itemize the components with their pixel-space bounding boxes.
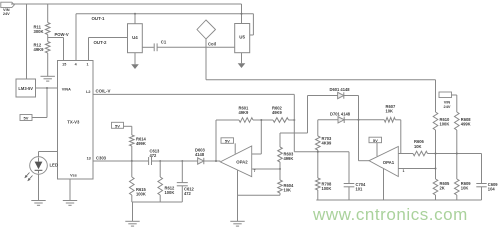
svg-text:VINA: VINA (62, 87, 71, 91)
IC U5 (235, 24, 250, 53)
wire C704 branch (348, 152, 350, 183)
power flag 5V (OPA2) (221, 138, 234, 144)
svg-text:10K: 10K (461, 185, 469, 190)
wire LED to ground (38, 174, 40, 200)
wire U4 output (142, 46, 154, 48)
wire R607 feed (359, 119, 385, 121)
svg-text:5V: 5V (115, 124, 120, 129)
resistor R612 (159, 161, 161, 177)
svg-text:OPA2: OPA2 (236, 160, 248, 165)
IC TX-V3 body (58, 61, 94, 180)
capacitor C612 (181, 161, 183, 182)
svg-text:49K9: 49K9 (239, 110, 250, 115)
power flag 5V (regulator) (20, 115, 32, 121)
power flag VIN 24V (right) (439, 92, 452, 98)
svg-text:OUT-1: OUT-1 (92, 16, 105, 21)
wire net OUT-2 (89, 37, 128, 39)
wire coil bottom stem (205, 39, 207, 80)
svg-text:4K99: 4K99 (322, 141, 333, 146)
capacitor C1 (153, 43, 155, 51)
svg-text:10K: 10K (414, 144, 422, 149)
svg-text:Vss: Vss (70, 174, 77, 178)
svg-text:U4: U4 (132, 35, 138, 40)
junction OPA2 out/R603 (279, 168, 281, 170)
wire R614 top to 5V tag (124, 125, 132, 127)
svg-text:U5: U5 (239, 35, 245, 40)
junction top rail at U5 (241, 13, 243, 15)
svg-text:D701 4148: D701 4148 (330, 111, 351, 116)
resistor R602 (273, 118, 289, 123)
svg-text:OUT-2: OUT-2 (94, 40, 107, 45)
resistor R601 (239, 118, 253, 123)
wire R601-R602 node (253, 119, 273, 121)
svg-text:LED: LED (50, 163, 58, 168)
wire R601 tap down (215, 120, 217, 161)
svg-text:104: 104 (488, 187, 496, 192)
svg-text:1: 1 (86, 63, 88, 67)
ground arrow under U5 (238, 63, 246, 68)
power flag VIN 24V (left) (1, 2, 15, 7)
wire 5V branch (46, 88, 48, 118)
svg-text:10K: 10K (284, 187, 292, 192)
wire VIN tag to R608 (452, 94, 457, 96)
svg-text:100K: 100K (322, 186, 332, 191)
wire COIL-V down leg (293, 94, 295, 151)
wire LM3-5V output to VINA (36, 87, 58, 89)
wire rail to ground (132, 202, 134, 221)
svg-text:49K9: 49K9 (272, 110, 283, 115)
wire R12 to ground (47, 53, 49, 76)
resistor R12 (45, 42, 50, 54)
resistor R609 (454, 179, 459, 195)
diode D603 (198, 158, 204, 164)
junction rail1/R610 (435, 153, 437, 155)
resistor R703 (317, 120, 319, 136)
svg-text:499K: 499K (136, 141, 146, 146)
wire OPA1 upper pin rail (398, 153, 413, 155)
wire net OUT-1 (76, 13, 253, 15)
wire R603 top link (280, 132, 308, 134)
wire D603 to OPA2 input (204, 160, 221, 162)
svg-text:5V: 5V (24, 116, 29, 121)
ground (LED) (31, 201, 45, 206)
resistor R604 (279, 169, 281, 180)
wire C609 to rail2 (481, 187, 483, 200)
wire D601/D701 right link (358, 96, 360, 161)
svg-text:15: 15 (62, 63, 66, 67)
capacitor C704 (344, 183, 355, 185)
svg-text:POW-V: POW-V (55, 32, 69, 37)
svg-text:LM3-5V: LM3-5V (18, 86, 33, 91)
junction R703/mid link (317, 151, 319, 153)
svg-text:24V: 24V (3, 11, 10, 16)
wire VIN to R11 (47, 4, 49, 23)
wire C704 to ground rail (348, 187, 350, 200)
wire ground rail2 (316, 199, 481, 201)
diode D701 (338, 117, 344, 123)
svg-text:1: 1 (403, 169, 405, 173)
wire coil net to R610 (435, 80, 437, 112)
wire R601 left lead (216, 119, 239, 121)
svg-text:499K: 499K (284, 156, 294, 161)
junction R602/COIL-V leg (293, 119, 295, 121)
svg-text:L2: L2 (86, 90, 90, 94)
resistor R610 (433, 112, 438, 130)
svg-text:OPA1: OPA1 (383, 160, 395, 165)
resistor R11 (45, 23, 50, 35)
wire rail1 right (428, 153, 482, 155)
resistor R607 (384, 118, 395, 123)
wire OUT-1 to U5 right pin (252, 14, 254, 35)
wire OPA1 ground stem (383, 169, 385, 200)
junction OPA2 input (215, 160, 217, 162)
svg-text:4148: 4148 (195, 152, 205, 157)
junction 5V branch (46, 87, 48, 89)
wire R608 bottom column (456, 130, 458, 179)
svg-text:5V: 5V (373, 138, 378, 143)
wire feedback to OPA2 (260, 120, 262, 154)
wire IC to LED (39, 151, 58, 153)
svg-text:www.cntronics.com: www.cntronics.com (312, 205, 468, 224)
svg-text:300K: 300K (34, 29, 44, 34)
wire POW-V to IC pin 15 (48, 37, 64, 39)
svg-text:100K: 100K (165, 190, 175, 195)
svg-text:472: 472 (150, 153, 158, 158)
resistor R605 (433, 179, 438, 195)
wire rail1 corner down (481, 154, 483, 184)
wire R610 bottom column (435, 130, 437, 179)
svg-text:24V: 24V (444, 104, 451, 109)
resistor R614 (130, 135, 135, 146)
junction OPA1 out column (435, 168, 437, 170)
wire VIN top rail (11, 3, 242, 5)
svg-text:13: 13 (87, 157, 91, 161)
svg-text:Coil: Coil (208, 41, 216, 46)
wire OPA2 output (252, 168, 280, 170)
wire IC Vss to ground (69, 179, 71, 200)
svg-text:10K: 10K (386, 109, 394, 114)
wire U4 top pin (134, 14, 136, 24)
op-amp OPA2 (220, 146, 251, 177)
wire C613 to D603 (152, 160, 198, 162)
junction D701 right (358, 119, 360, 121)
resistor R615 (131, 161, 133, 177)
wire D601 net (308, 95, 359, 97)
coil element (diamond) (197, 20, 216, 39)
wire coil sense net (206, 79, 436, 81)
wire R604 to OPA2 ground (238, 194, 281, 196)
svg-text:499K: 499K (461, 122, 471, 127)
resistor R606 (413, 151, 427, 156)
svg-text:49K9: 49K9 (34, 47, 45, 52)
svg-text:100K: 100K (136, 192, 146, 197)
svg-text:101: 101 (356, 187, 364, 192)
op-amp OPA1 (369, 147, 398, 177)
svg-text:472: 472 (184, 191, 192, 196)
wire VIN to LM3-5V input (26, 4, 28, 79)
junction rail1/R608 (456, 153, 458, 155)
wire R602 right lead (289, 119, 295, 121)
ground (OPA2) (230, 221, 244, 226)
resistor R608 (454, 112, 459, 130)
capacitor C609 (476, 183, 486, 185)
junction R601/R602 (260, 119, 262, 121)
wire C1 to U5 left pin (158, 46, 235, 48)
wire R607 to rail (395, 119, 401, 121)
junction C303/R614 (131, 160, 133, 162)
ground (bottom-left) (125, 221, 139, 226)
resistor R603 (279, 133, 281, 147)
svg-text:C1: C1 (161, 39, 167, 44)
svg-text:D601 4148: D601 4148 (330, 87, 351, 92)
wire C303 net (93, 160, 148, 162)
wire bottom-left rail (132, 201, 183, 203)
junction U4 top (134, 13, 136, 15)
wire VIN to U5 top pin (241, 4, 243, 24)
wire R11-R12 node (47, 35, 49, 42)
svg-text:COIL-V: COIL-V (96, 89, 111, 94)
ground (IC Vss) (63, 201, 77, 206)
svg-text:2K: 2K (440, 185, 445, 190)
ground (divider) (41, 76, 55, 81)
LED D1 (30, 157, 48, 175)
resistor R708 (315, 178, 320, 190)
regulator LM3-5V (16, 79, 36, 97)
power flag 5V (OPA1) (369, 137, 382, 143)
wire R614 bottom (131, 146, 133, 161)
wire OPA2 ground stem (237, 170, 239, 221)
wire D701 net (318, 119, 359, 121)
svg-text:TX-V3: TX-V3 (67, 119, 80, 124)
wire OPA1 input from D701 node (359, 160, 370, 162)
svg-text:C303: C303 (96, 156, 107, 161)
ground arrow under U4 (131, 64, 139, 69)
wire OPA1 lower pin (398, 168, 435, 170)
wire U5 ground stem (241, 53, 243, 64)
wire net COIL-V (93, 93, 294, 95)
wire mid link (294, 151, 349, 153)
IC U4 (128, 24, 143, 53)
capacitor C613 (148, 157, 150, 165)
svg-text:100K: 100K (440, 122, 450, 127)
power flag 5V (R614) (112, 122, 124, 128)
wire U4 ground stem (134, 53, 136, 64)
svg-text:5V: 5V (225, 139, 230, 144)
diode D601 (338, 92, 344, 98)
